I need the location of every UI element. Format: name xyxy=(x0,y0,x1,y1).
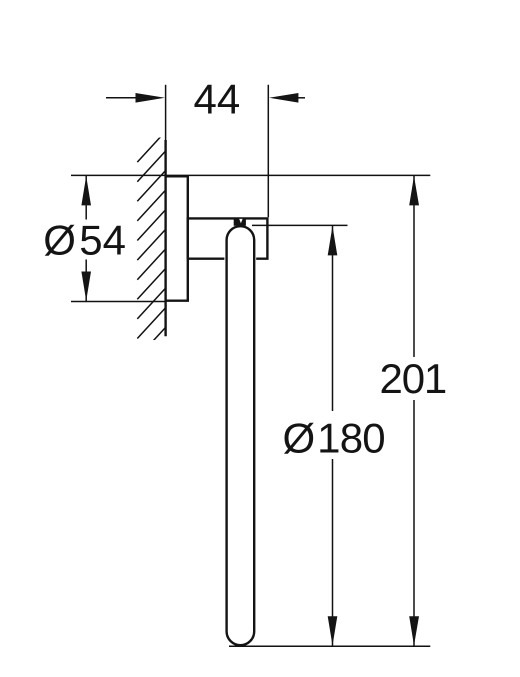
dimension Ø54: dimension line lower segment xyxy=(85,260,87,302)
mounting pin nib xyxy=(234,219,246,226)
bottom extension line (ring bottom datum) xyxy=(229,645,430,647)
dimension Ø180: lower arrowhead xyxy=(328,616,338,645)
dimension 44: left arrowhead xyxy=(136,93,165,103)
svg-text:Ø: Ø xyxy=(43,217,76,264)
towel ring Ø180 (side view, stadium outline) xyxy=(227,226,255,645)
dimension 44: right arrowhead xyxy=(269,93,298,103)
dimension Ø180: dimension line upper segment xyxy=(332,225,334,411)
dimension 201: dimension line upper segment xyxy=(413,175,415,357)
svg-text:44: 44 xyxy=(194,76,241,123)
svg-text:180: 180 xyxy=(317,415,385,462)
wall hatching xyxy=(137,131,166,358)
dimension 201: dimension line lower segment xyxy=(413,400,415,646)
dimension Ø180: top extension line xyxy=(252,224,348,226)
dimension 44: left arrow tail xyxy=(106,97,140,99)
dimension Ø54: dimension line upper segment xyxy=(85,175,87,219)
svg-text:Ø: Ø xyxy=(282,415,315,462)
dimension 201: upper arrowhead xyxy=(409,176,419,205)
top extension line (wall plate top / 201 datum) xyxy=(71,174,430,176)
wall line xyxy=(164,140,166,336)
dimension 44: right extension line xyxy=(267,85,269,218)
wall plate (escutcheon Ø54, side view) xyxy=(166,176,188,300)
dimension 44: left extension line xyxy=(165,85,167,141)
svg-text:54: 54 xyxy=(79,217,126,264)
dimension Ø54: bottom extension line xyxy=(71,301,166,303)
dimension Ø54: upper arrowhead xyxy=(81,176,91,205)
dimension Ø54: lower arrowhead xyxy=(81,272,91,301)
dimension 201: lower arrowhead xyxy=(409,616,419,645)
ring holder arm xyxy=(188,218,268,258)
dimension Ø180: upper arrowhead xyxy=(328,226,338,255)
dimension Ø180: dimension line lower segment xyxy=(332,459,334,646)
dimension 44: right arrow tail xyxy=(294,97,305,99)
svg-text:201: 201 xyxy=(380,355,446,402)
